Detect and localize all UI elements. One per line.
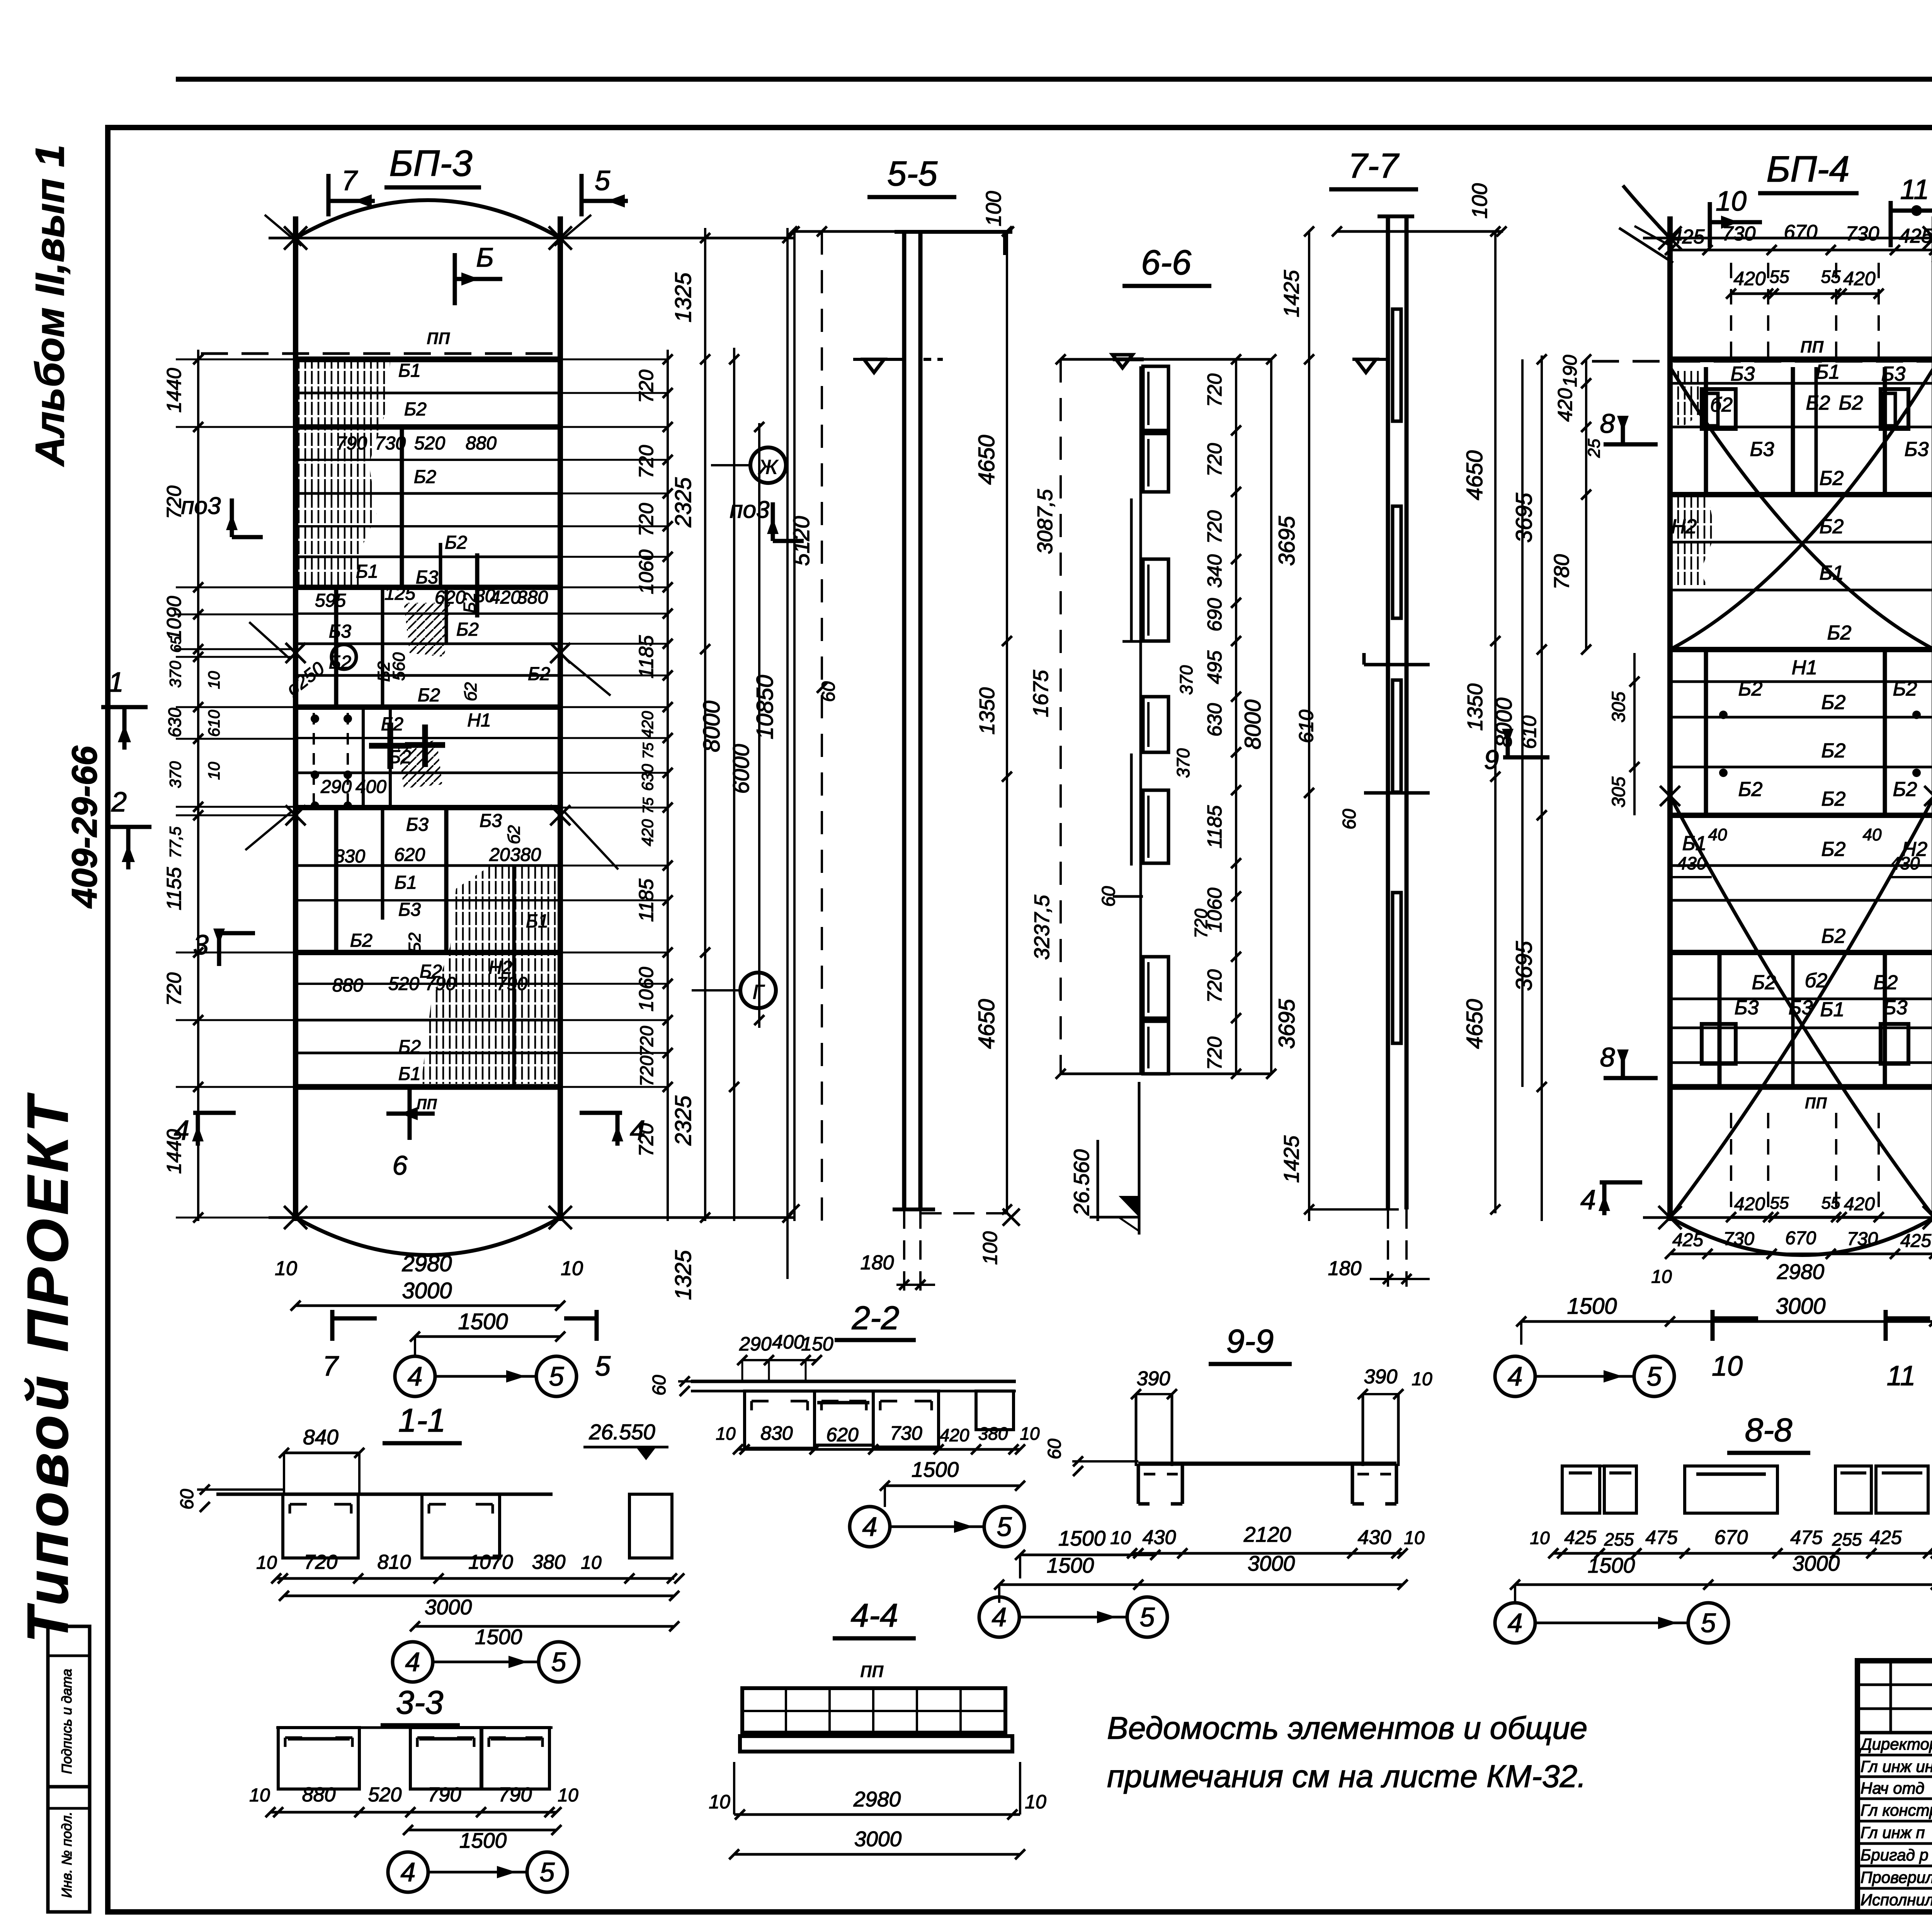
- svg-text:б2: б2: [1805, 969, 1827, 992]
- svg-text:305: 305: [1609, 777, 1629, 808]
- Б3 box top left БП-4: [1702, 389, 1736, 429]
- svg-text:370: 370: [166, 761, 184, 788]
- svg-text:2120: 2120: [1243, 1522, 1291, 1546]
- bottom dimension line БП-3: [269, 1216, 794, 1219]
- section flag 4 left bottom: [193, 1111, 236, 1115]
- svg-text:830: 830: [760, 1422, 793, 1444]
- svg-text:пп: пп: [861, 1658, 884, 1682]
- svg-text:Б3: Б3: [329, 621, 351, 642]
- section flag 10 top: [1708, 202, 1712, 247]
- axis line 5 of БП-3: [558, 216, 563, 1221]
- Б3 box bottom left БП-4: [1702, 1024, 1736, 1064]
- svg-text:3695: 3695: [1512, 941, 1537, 991]
- svg-text:5: 5: [549, 1361, 565, 1391]
- svg-text:4: 4: [405, 1647, 420, 1677]
- svg-text:370: 370: [1176, 665, 1196, 695]
- svg-text:3000: 3000: [854, 1827, 902, 1851]
- svg-text:Б2: Б2: [389, 747, 411, 767]
- section flag 8 left: [1604, 442, 1658, 447]
- section 9-9 top dims: [1136, 1393, 1172, 1395]
- svg-text:840: 840: [303, 1425, 338, 1449]
- top arcs БП-4: [1619, 228, 1673, 263]
- svg-text:Б2: Б2: [398, 1037, 421, 1057]
- rivet dots БП-3: [311, 714, 319, 723]
- svg-text:2325: 2325: [671, 1095, 696, 1146]
- svg-text:3000: 3000: [402, 1278, 452, 1303]
- svg-text:10: 10: [1404, 1528, 1425, 1548]
- svg-text:Б3: Б3: [1905, 438, 1929, 461]
- svg-text:БП-3: БП-3: [389, 143, 472, 184]
- svg-text:790: 790: [425, 974, 456, 994]
- axis line of БП-4 left: [1667, 216, 1673, 1221]
- svg-text:5: 5: [595, 1351, 611, 1382]
- svg-text:4650: 4650: [1462, 999, 1487, 1049]
- svg-text:180: 180: [1328, 1257, 1362, 1280]
- svg-text:720: 720: [163, 973, 185, 1006]
- svg-text:Б2: Б2: [1874, 971, 1898, 994]
- svg-text:420: 420: [1733, 268, 1766, 289]
- svg-text:Альбом II,вып 1: Альбом II,вып 1: [27, 145, 73, 467]
- svg-text:1185: 1185: [635, 635, 658, 679]
- section 2-2 top plate: [691, 1380, 1016, 1383]
- svg-text:425: 425: [1869, 1527, 1902, 1548]
- svg-text:Б3: Б3: [406, 815, 429, 835]
- svg-text:по3: по3: [181, 493, 221, 519]
- svg-text:730: 730: [1846, 223, 1879, 245]
- section 2-2 top dims: [742, 1359, 817, 1361]
- bottom dim row 420 55 БП-4: [1731, 1216, 1879, 1219]
- svg-text:620: 620: [394, 845, 425, 865]
- svg-text:Б2: Б2: [350, 930, 372, 951]
- section 3-3 dim 1500: [408, 1829, 556, 1832]
- svg-text:10: 10: [1651, 1267, 1672, 1287]
- svg-text:4650: 4650: [974, 999, 999, 1049]
- svg-text:425: 425: [1900, 1231, 1931, 1251]
- svg-text:1060: 1060: [635, 967, 658, 1012]
- svg-text:примечания см на листе КМ-: примечания см на листе КМ-32.: [1107, 1759, 1586, 1794]
- svg-text:26.550: 26.550: [588, 1420, 655, 1444]
- rivet dots БП-4: [1719, 711, 1728, 719]
- section 7-7 level mark: [1352, 358, 1387, 361]
- lens arcs БП-4 lower: [1670, 796, 1932, 1218]
- svg-text:Б2: Б2: [1820, 515, 1844, 538]
- svg-text:520: 520: [414, 433, 445, 454]
- svg-text:Б2: Б2: [414, 467, 436, 487]
- svg-text:880: 880: [332, 975, 363, 996]
- svg-text:пп: пп: [427, 325, 451, 349]
- margin stamp boxes: [48, 1626, 90, 1912]
- svg-text:475: 475: [1645, 1527, 1678, 1548]
- axis bubble 5 of БП-4: [1634, 1356, 1674, 1396]
- top dimension line БП-3: [269, 237, 794, 240]
- svg-text:420: 420: [940, 1425, 969, 1445]
- svg-text:пп: пп: [417, 1093, 437, 1113]
- svg-text:6: 6: [393, 1150, 408, 1180]
- svg-text:4: 4: [1508, 1608, 1523, 1638]
- svg-text:Б1: Б1: [356, 561, 378, 582]
- svg-text:10850: 10850: [752, 675, 778, 740]
- svg-text:630: 630: [638, 764, 656, 791]
- section flag 8 left bottom: [1604, 1076, 1658, 1080]
- svg-text:5: 5: [997, 1512, 1012, 1542]
- svg-text:Б2: Б2: [1738, 678, 1763, 700]
- svg-text:630: 630: [165, 707, 185, 737]
- svg-text:55: 55: [1821, 267, 1841, 287]
- section 1-1 dim 1500: [415, 1625, 674, 1628]
- svg-text:пп: пп: [1805, 1090, 1827, 1113]
- svg-text:390: 390: [1137, 1367, 1170, 1390]
- svg-text:1090: 1090: [163, 596, 185, 641]
- svg-text:Б3: Б3: [1731, 363, 1755, 385]
- svg-text:77,5: 77,5: [166, 826, 184, 858]
- svg-text:10: 10: [716, 1423, 736, 1444]
- svg-text:Б3: Б3: [416, 567, 438, 588]
- svg-text:Исполнил: Исполнил: [1861, 1891, 1932, 1909]
- right chain БП-3 10850: [786, 228, 789, 1279]
- svg-text:4: 4: [174, 1115, 189, 1146]
- svg-text:Б2: Б2: [1806, 392, 1830, 414]
- section 6-6 right chain: [1235, 359, 1237, 1074]
- svg-text:380: 380: [532, 1551, 566, 1573]
- svg-text:305: 305: [1609, 692, 1629, 723]
- svg-text:5-5: 5-5: [887, 155, 938, 193]
- section 1-1 channels: [283, 1494, 358, 1558]
- title block top rows: [1857, 1684, 1932, 1686]
- svg-text:1425: 1425: [1279, 1135, 1303, 1183]
- axis bubble 5 of БП-3: [536, 1356, 577, 1396]
- svg-text:475: 475: [1790, 1527, 1823, 1548]
- axis bubbles 8-8: [1495, 1603, 1535, 1643]
- svg-text:1325: 1325: [671, 1250, 696, 1300]
- svg-text:730: 730: [1722, 223, 1756, 245]
- svg-text:100: 100: [981, 191, 1005, 226]
- svg-text:1500: 1500: [459, 1828, 507, 1852]
- svg-text:2980: 2980: [401, 1251, 452, 1276]
- svg-text:720: 720: [637, 1056, 657, 1087]
- svg-text:10: 10: [256, 1553, 277, 1573]
- svg-text:720: 720: [304, 1551, 338, 1573]
- svg-text:8: 8: [1600, 408, 1615, 439]
- svg-text:10: 10: [1530, 1528, 1550, 1548]
- section flag 10 bottom: [1711, 1310, 1715, 1341]
- section flag 7 top: [327, 174, 331, 216]
- svg-text:430: 430: [1358, 1526, 1391, 1549]
- svg-text:Ж: Ж: [758, 456, 779, 478]
- section 9-9 end channels: [1137, 1464, 1140, 1504]
- axis circle Г right of БП-3: [740, 973, 776, 1008]
- section 6-6 profile line: [1139, 366, 1142, 1074]
- svg-text:Б1: Б1: [1820, 998, 1845, 1021]
- svg-text:3087,5: 3087,5: [1033, 489, 1057, 554]
- axis bubbles 9-9: [979, 1597, 1019, 1637]
- section 7-7 top dim: [1337, 230, 1503, 233]
- svg-text:6000: 6000: [729, 744, 754, 794]
- svg-text:65: 65: [168, 636, 184, 653]
- svg-text:4: 4: [1508, 1361, 1523, 1391]
- svg-text:Директор: Директор: [1859, 1735, 1932, 1753]
- svg-text:Б2: Б2: [528, 664, 550, 684]
- svg-text:Н2: Н2: [1671, 515, 1697, 538]
- svg-text:2980: 2980: [853, 1787, 901, 1811]
- svg-text:1675: 1675: [1029, 670, 1053, 717]
- svg-text:10: 10: [205, 671, 223, 689]
- svg-text:810: 810: [378, 1551, 411, 1573]
- svg-text:Инв. № подл.: Инв. № подл.: [59, 1811, 75, 1898]
- top dim row 2 БП-4: [1731, 293, 1879, 295]
- svg-text:60: 60: [818, 681, 839, 702]
- svg-text:1155: 1155: [163, 867, 185, 910]
- section 3-3 channels: [278, 1728, 359, 1789]
- svg-text:20: 20: [489, 845, 510, 865]
- svg-text:60: 60: [1044, 1439, 1065, 1459]
- bottom arc БП-3: [296, 1218, 560, 1255]
- svg-text:400: 400: [355, 777, 386, 797]
- top arc БП-3: [296, 200, 560, 238]
- svg-text:Б3: Б3: [1750, 438, 1774, 461]
- hatch small left БП-4 top: [1673, 369, 1708, 425]
- svg-text:Б1: Б1: [1816, 361, 1840, 383]
- section 6-6 stack of channels: [1143, 366, 1168, 430]
- svg-text:Б3: Б3: [1789, 997, 1813, 1019]
- cross anchors Н1 row БП-3: [388, 723, 393, 769]
- svg-text:1185: 1185: [1204, 805, 1226, 849]
- section 1-1 dim 3000: [284, 1595, 674, 1597]
- svg-text:730: 730: [375, 433, 406, 454]
- svg-text:730: 730: [890, 1422, 922, 1444]
- svg-text:370: 370: [166, 660, 184, 688]
- svg-text:б2: б2: [1710, 394, 1733, 416]
- section 7-7 left chain: [1308, 231, 1310, 1221]
- svg-text:3237,5: 3237,5: [1030, 895, 1054, 960]
- svg-text:670: 670: [1785, 1228, 1816, 1248]
- section 3-3 top line: [276, 1726, 553, 1729]
- svg-text:60: 60: [1339, 809, 1360, 830]
- svg-text:60: 60: [649, 1375, 670, 1396]
- svg-text:Б2: Б2: [445, 532, 467, 553]
- svg-text:Б1: Б1: [395, 872, 417, 893]
- svg-text:790: 790: [498, 1784, 532, 1806]
- section flag 7 bottom: [330, 1310, 335, 1341]
- svg-text:425: 425: [1672, 1230, 1703, 1250]
- svg-text:290: 290: [739, 1333, 772, 1355]
- svg-text:610: 610: [1295, 710, 1318, 743]
- axis line 4 of БП-3: [293, 216, 298, 1221]
- svg-text:5: 5: [1140, 1602, 1155, 1632]
- svg-text:1350: 1350: [1463, 683, 1487, 731]
- svg-text:Б1: Б1: [526, 911, 548, 932]
- svg-text:4650: 4650: [974, 435, 999, 485]
- section 1-1 bottom dims: [276, 1577, 674, 1580]
- svg-text:Б2: Б2: [1827, 622, 1852, 644]
- svg-text:720: 720: [1204, 969, 1226, 1003]
- svg-text:730: 730: [1847, 1229, 1878, 1249]
- svg-text:10: 10: [1716, 186, 1747, 217]
- svg-text:1060: 1060: [635, 549, 658, 594]
- section 4-4 grid plate: [742, 1688, 1005, 1733]
- svg-text:Нач отд: Нач отд: [1861, 1779, 1924, 1797]
- svg-text:370: 370: [1173, 748, 1193, 778]
- section flag 5 top of БП-3: [580, 174, 584, 216]
- svg-text:255: 255: [1832, 1529, 1862, 1549]
- svg-text:420: 420: [490, 587, 521, 608]
- right chain БП-3 8000: [733, 348, 735, 1221]
- section 7-7 right chain: [1494, 231, 1497, 1213]
- svg-text:1425: 1425: [1279, 270, 1303, 317]
- svg-text:720: 720: [1204, 1037, 1226, 1070]
- svg-text:420: 420: [1554, 388, 1577, 422]
- svg-text:55: 55: [1770, 1194, 1789, 1213]
- svg-text:3-3: 3-3: [396, 1684, 444, 1721]
- svg-text:2-2: 2-2: [852, 1300, 900, 1337]
- chain 5-5 mid ticks: [821, 231, 823, 1221]
- svg-text:5: 5: [1701, 1608, 1716, 1638]
- svg-text:630: 630: [1204, 703, 1226, 737]
- svg-text:8-8: 8-8: [1745, 1412, 1793, 1449]
- svg-text:11: 11: [1900, 174, 1929, 205]
- left chain БП-4 305: [1633, 653, 1636, 815]
- section 2-2 bottom dims: [738, 1448, 1020, 1451]
- svg-text:26.560: 26.560: [1069, 1149, 1094, 1216]
- axis bubbles 1-1: [393, 1642, 433, 1682]
- svg-text:Б1: Б1: [398, 1064, 421, 1084]
- svg-text:Б2: Б2: [418, 685, 440, 706]
- svg-text:Б3: Б3: [1883, 997, 1908, 1019]
- svg-text:380: 380: [510, 845, 541, 865]
- section 4-4 dim 1500 top: [1020, 1554, 1155, 1556]
- section 5-5 top dim line: [792, 230, 1012, 233]
- svg-text:2980: 2980: [1777, 1260, 1825, 1284]
- svg-text:1440: 1440: [163, 368, 185, 413]
- svg-text:8000: 8000: [1492, 697, 1517, 747]
- svg-text:720: 720: [635, 503, 658, 537]
- section 8-8 channels group3: [1835, 1466, 1871, 1513]
- svg-text:Г: Г: [753, 981, 765, 1003]
- svg-text:Гл констр: Гл констр: [1861, 1801, 1932, 1819]
- svg-text:790: 790: [428, 1784, 461, 1806]
- hatch Н2 top left of БП-3: [298, 361, 390, 585]
- svg-text:2: 2: [111, 787, 127, 818]
- svg-text:Б: Б: [476, 242, 494, 272]
- bottom arc БП-4: [1670, 1218, 1932, 1255]
- svg-text:670: 670: [1714, 1526, 1748, 1549]
- svg-text:380: 380: [978, 1423, 1008, 1444]
- svg-text:5: 5: [1647, 1361, 1662, 1391]
- svg-text:Н2: Н2: [1902, 838, 1928, 861]
- left chain БП-4 full: [1541, 355, 1543, 1221]
- scan sheet top edge line: [176, 77, 1932, 82]
- svg-text:7: 7: [342, 165, 358, 196]
- leader marks at joints БП-3: [286, 643, 306, 663]
- section 9-9 bottom dims: [1132, 1552, 1403, 1555]
- section 8-8 channels group1: [1562, 1466, 1600, 1513]
- svg-text:1500: 1500: [1567, 1294, 1617, 1319]
- svg-text:10: 10: [275, 1257, 297, 1280]
- svg-text:400: 400: [772, 1331, 804, 1353]
- section flag 9 left: [1503, 755, 1549, 760]
- svg-text:55: 55: [1769, 267, 1789, 287]
- svg-text:Б2: Б2: [460, 592, 479, 613]
- section 5-5 right chain: [1006, 231, 1008, 1213]
- svg-text:б2: б2: [505, 825, 524, 844]
- axis bubbles 2-2: [850, 1507, 890, 1547]
- svg-text:730: 730: [1723, 1229, 1754, 1249]
- svg-text:5: 5: [595, 165, 611, 196]
- plan БП-3 horizontal beams: [296, 357, 560, 362]
- svg-text:4: 4: [1580, 1185, 1596, 1216]
- svg-text:1500: 1500: [1058, 1526, 1106, 1550]
- svg-text:4-4: 4-4: [851, 1597, 898, 1634]
- svg-text:100: 100: [1468, 183, 1492, 219]
- svg-text:10: 10: [1712, 1351, 1743, 1382]
- svg-text:Б2: Б2: [404, 399, 427, 420]
- svg-text:1500: 1500: [1047, 1553, 1094, 1577]
- plan БП-4 horizontal beams: [1670, 357, 1932, 362]
- section 5-5 column: [902, 232, 906, 1209]
- svg-text:Подпись и дата: Подпись и дата: [59, 1669, 75, 1774]
- svg-text:1500: 1500: [912, 1458, 959, 1481]
- svg-text:1070: 1070: [468, 1551, 513, 1573]
- lens arcs БП-4 upper: [1670, 367, 1932, 650]
- svg-text:3695: 3695: [1274, 516, 1299, 566]
- svg-text:10: 10: [1025, 1791, 1046, 1813]
- svg-text:4: 4: [992, 1602, 1007, 1632]
- axis circle Ж left of 5-5: [750, 447, 786, 483]
- svg-text:Бригад р: Бригад р: [1861, 1846, 1929, 1864]
- svg-text:690: 690: [1204, 598, 1226, 632]
- svg-text:720: 720: [637, 1026, 657, 1057]
- svg-text:610: 610: [205, 709, 223, 737]
- svg-text:520: 520: [368, 1784, 402, 1806]
- section flag 5 bottom of БП-3: [595, 1310, 599, 1341]
- svg-text:Б2: Б2: [1821, 838, 1846, 861]
- svg-text:3000: 3000: [1776, 1294, 1825, 1319]
- section 6-6 top cap: [1061, 358, 1271, 361]
- svg-text:Б2: Б2: [1893, 678, 1917, 700]
- svg-text:420: 420: [638, 819, 656, 846]
- svg-text:Б2: Б2: [1821, 925, 1846, 947]
- svg-text:60: 60: [177, 1489, 197, 1510]
- section 9-9 plate: [1138, 1462, 1396, 1466]
- svg-text:1500: 1500: [475, 1625, 522, 1649]
- section 6-6 chain 8000: [1270, 359, 1272, 1074]
- dashed ПП line top БП-4: [1592, 360, 1932, 363]
- svg-text:7-7: 7-7: [1348, 147, 1400, 185]
- svg-text:75: 75: [640, 742, 656, 759]
- svg-text:5: 5: [551, 1647, 567, 1677]
- hatch patch mid БП-3: [404, 603, 450, 657]
- svg-text:Б2: Б2: [1752, 971, 1776, 994]
- section 1-1 dim 60: [197, 1488, 284, 1491]
- svg-text:4650: 4650: [1462, 450, 1487, 500]
- hatch Н2 left of БП-4: [1672, 497, 1716, 587]
- svg-text:Б2: Б2: [1893, 778, 1917, 801]
- svg-text:8000: 8000: [1240, 699, 1265, 749]
- section 9-9 dims 1500 3000: [999, 1583, 1403, 1586]
- svg-text:425: 425: [1564, 1527, 1597, 1548]
- section 1-1 dim 840: [284, 1452, 359, 1454]
- section 7-7 inner plates: [1393, 309, 1401, 421]
- svg-text:Б2: Б2: [1821, 740, 1846, 762]
- left dimension chain БП-3 inner: [197, 350, 199, 1221]
- svg-text:790: 790: [497, 974, 527, 994]
- section 4-4 bottom bar: [740, 1736, 1012, 1752]
- svg-text:Н1: Н1: [1792, 656, 1817, 679]
- svg-text:420: 420: [1844, 1194, 1875, 1214]
- dashed ПП line top БП-3: [201, 352, 558, 355]
- section 9-9 hanger verticals: [1135, 1394, 1138, 1466]
- section 1-1 top plate: [216, 1493, 553, 1496]
- svg-text:409-29-66: 409-29-66: [65, 745, 104, 908]
